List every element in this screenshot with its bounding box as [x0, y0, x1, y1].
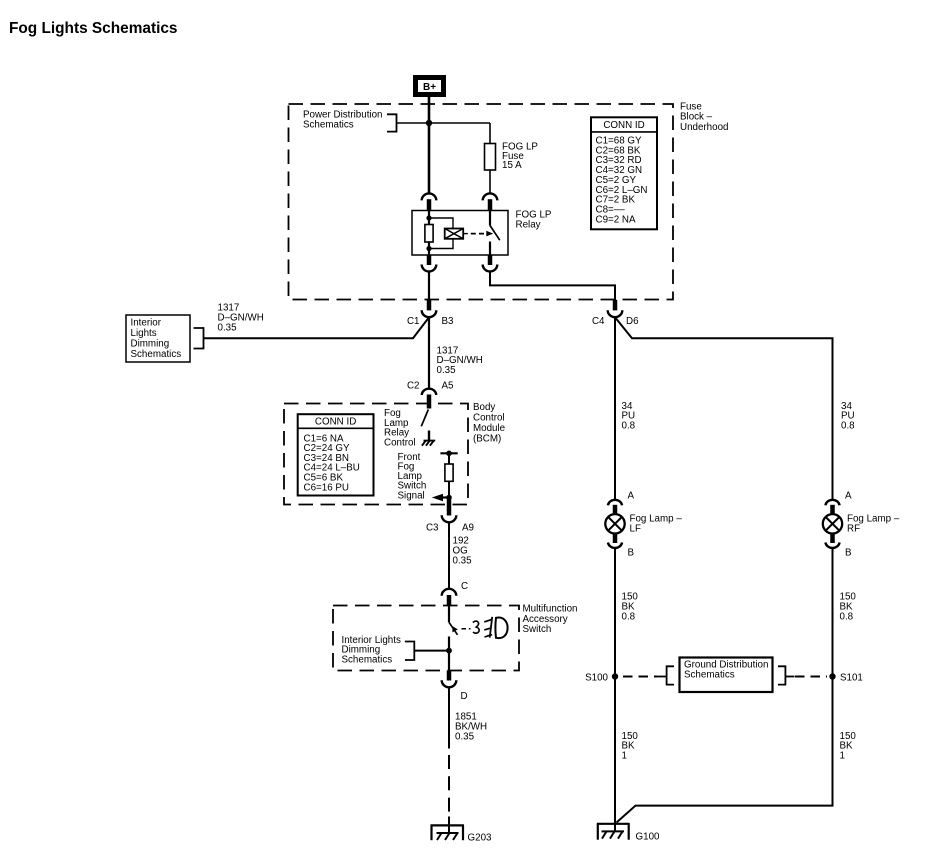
BCM driver switch: [421, 404, 429, 427]
node: coil top junction: [426, 215, 431, 220]
svg-text:Interior: Interior: [131, 317, 162, 328]
svg-text:C4: C4: [592, 316, 605, 327]
svg-text:0.8: 0.8: [840, 611, 854, 622]
linkage dashes: [462, 628, 471, 630]
svg-text:A: A: [628, 490, 635, 501]
label: Fog Lamp Relay Control: [384, 408, 416, 448]
svg-text:1: 1: [840, 750, 845, 761]
wire: 1851 BK/WH 0.35: [448, 687, 450, 749]
battery feed B+: [416, 78, 444, 95]
wire: bracket to switch node: [414, 650, 449, 652]
svg-text:C: C: [461, 581, 468, 592]
label: Power Distribution Schematics: [303, 109, 383, 130]
svg-text:Fog Lights Schematics: Fog Lights Schematics: [9, 20, 177, 37]
svg-text:RF: RF: [847, 524, 860, 535]
svg-text:15 A: 15 A: [502, 160, 522, 171]
fog lamp RF: [823, 490, 900, 558]
relay switch contact: [490, 211, 500, 256]
connector: relay coil input: [422, 193, 437, 210]
bracket [: [657, 666, 674, 684]
relay box FOG LP Relay: [412, 211, 508, 256]
CONN ID table (fuse block): [591, 117, 657, 229]
detent symbol: [473, 621, 479, 633]
wire: fuse to relay: [489, 170, 491, 193]
svg-text:Schematics: Schematics: [342, 654, 393, 665]
wire: LF to G100 (150 BK): [614, 549, 616, 824]
wire: relay coil vertical: [428, 211, 430, 256]
wire: C4 to fog lamp LF: [614, 317, 616, 499]
fog lamp icon rays: [484, 620, 492, 637]
label: FOG LP Fuse 15 A: [502, 142, 538, 172]
svg-text:C6=16 PU: C6=16 PU: [304, 482, 349, 493]
connector D: [442, 671, 468, 703]
connector C4/D6: [592, 300, 639, 327]
label: Fuse Block - Underhood: [680, 101, 728, 132]
svg-text:0.8: 0.8: [841, 420, 855, 431]
wire: actuator stub: [463, 233, 468, 235]
wire: B+ trunk down to relay: [428, 97, 431, 193]
connector C2/A5: [407, 381, 454, 404]
svg-text:B: B: [845, 547, 852, 558]
svg-text:Schematics: Schematics: [684, 670, 735, 681]
wire: branch to fog lamp RF: [615, 317, 833, 499]
wire label: 34 PU 0.8 (LF): [622, 401, 636, 432]
bracket: interior lights (switch): [405, 642, 414, 661]
wire label: 150 BK 0.8 (RF): [840, 592, 857, 623]
svg-text:B+: B+: [423, 82, 436, 93]
svg-text:CONN ID: CONN ID: [603, 120, 644, 131]
svg-text:0.35: 0.35: [455, 732, 475, 743]
svg-text:C1: C1: [407, 316, 420, 327]
wire: resistor to pin: [448, 481, 450, 497]
wire: RF to G100: [617, 549, 833, 823]
junction node at B+ tap: [426, 120, 432, 126]
CONN ID table (BCM): [298, 414, 374, 495]
wire: dashed to G203: [448, 755, 450, 812]
interior lights dimming schematics box: [126, 315, 190, 362]
svg-text:Lights: Lights: [131, 328, 157, 339]
wire label: 1317 D-GN/WH 0.35: [437, 345, 483, 376]
splice S100: [612, 673, 618, 679]
svg-text:C2: C2: [407, 381, 420, 392]
dashed link to ground distribution (left): [623, 676, 657, 678]
svg-text:0.35: 0.35: [437, 365, 457, 376]
wire label: 150 BK 1 (right): [840, 731, 857, 761]
connector: relay switch input: [483, 193, 498, 210]
BCM internal supply bar: [440, 452, 457, 454]
BCM dashed box: [284, 404, 468, 505]
label: FOG LP Relay: [516, 209, 552, 230]
relay coil actuator (box with X): [445, 229, 464, 239]
svg-text:Module: Module: [473, 423, 506, 434]
svg-text:Schematics: Schematics: [131, 349, 182, 360]
svg-text:C9=2 NA: C9=2 NA: [596, 214, 636, 225]
label: Interior Lights Dimming Schematics: [342, 635, 401, 665]
label: Body Control Module (BCM): [473, 402, 506, 445]
wire: interior lights to C1: [204, 317, 430, 338]
connector C: [442, 581, 468, 606]
ground G203: [431, 817, 465, 841]
svg-text:0.35: 0.35: [453, 555, 473, 566]
node: coil bottom junction: [426, 246, 431, 251]
wire: supply to resistor: [448, 453, 450, 464]
svg-text:CONN ID: CONN ID: [315, 417, 356, 428]
wire: C1 to C2 trunk: [428, 317, 430, 389]
svg-text:C3: C3: [426, 523, 439, 534]
switch: fog lamp switch: [449, 606, 458, 635]
signal arrow (Front Fog Lamp Switch Signal): [432, 494, 452, 502]
BCM internal ground (hatched): [422, 431, 435, 446]
wire label: 150 BK 1 (left): [622, 731, 639, 761]
connector C1/B3: [407, 300, 454, 327]
wire: fuse branch down: [489, 123, 491, 144]
wire: power distribution tap: [397, 122, 491, 124]
connector: relay switch output: [483, 255, 498, 271]
svg-text:0.8: 0.8: [622, 420, 636, 431]
svg-text:A5: A5: [442, 381, 455, 392]
svg-text:0.35: 0.35: [218, 322, 238, 333]
svg-text:S101: S101: [840, 673, 863, 684]
svg-text:D: D: [461, 691, 468, 702]
svg-text:Control: Control: [473, 412, 505, 423]
label: Multifunction Accessory Switch: [523, 604, 578, 636]
fog lamp icon bar: [490, 617, 493, 638]
wire label: 1317 D-GN/WH 0.35 (left): [218, 303, 264, 334]
svg-text:Underhood: Underhood: [680, 122, 728, 133]
wire: 192 OG 0.35: [448, 522, 450, 590]
bracket: interior lights: [194, 328, 204, 349]
wire: coil branch loop: [429, 218, 453, 249]
svg-text:Relay: Relay: [516, 220, 541, 231]
fog lamp icon lens: [495, 618, 507, 639]
wire: relay coil output down: [428, 272, 430, 301]
dashed link to ground distribution (right): [795, 676, 827, 678]
svg-text:Switch: Switch: [523, 624, 552, 635]
bracket: power distribution: [387, 114, 397, 131]
resistor: BCM pull-up: [445, 464, 453, 481]
svg-text:1: 1: [622, 750, 627, 761]
svg-text:Body: Body: [473, 402, 495, 413]
connector: relay coil output: [422, 255, 437, 271]
svg-text:G100: G100: [636, 832, 661, 843]
wire: relay switch output to C4: [490, 272, 615, 301]
svg-text:A9: A9: [462, 523, 474, 534]
svg-text:B: B: [628, 547, 635, 558]
bracket ]: [778, 666, 795, 684]
svg-text:S100: S100: [585, 673, 608, 684]
svg-text:LF: LF: [630, 524, 641, 535]
svg-text:Dimming: Dimming: [131, 338, 170, 349]
svg-text:Signal: Signal: [398, 490, 425, 501]
label: Front Fog Lamp Switch Signal: [398, 452, 427, 502]
fuse FOG LP 15 A: [485, 144, 496, 171]
wire label: 34 PU 0.8 (RF): [841, 401, 855, 432]
splice S101: [829, 673, 835, 679]
node: interior lights tap: [446, 648, 452, 654]
node: top of pull-up: [446, 451, 452, 457]
wire label: 150 BK 0.8 (LF): [622, 592, 639, 623]
svg-text:Control: Control: [384, 437, 416, 448]
actuation arrowhead: [486, 231, 493, 237]
svg-text:Schematics: Schematics: [303, 119, 354, 130]
svg-text:A: A: [845, 490, 852, 501]
svg-text:(BCM): (BCM): [473, 433, 501, 444]
svg-text:0.8: 0.8: [622, 611, 636, 622]
ground G100: [597, 824, 630, 840]
fuse block underhood dashed box: [289, 104, 674, 300]
svg-text:G203: G203: [468, 833, 493, 844]
multifunction accessory switch dashed box: [333, 606, 519, 671]
ground distribution schematics box: [680, 658, 773, 693]
connector C3/A9: [426, 498, 474, 534]
svg-text:B3: B3: [442, 316, 455, 327]
fog lamp LF: [605, 490, 682, 558]
svg-text:D6: D6: [626, 316, 639, 327]
wire: below switch: [448, 637, 450, 671]
actuation dashed link: [471, 233, 485, 235]
resistor: relay coil: [425, 225, 433, 243]
